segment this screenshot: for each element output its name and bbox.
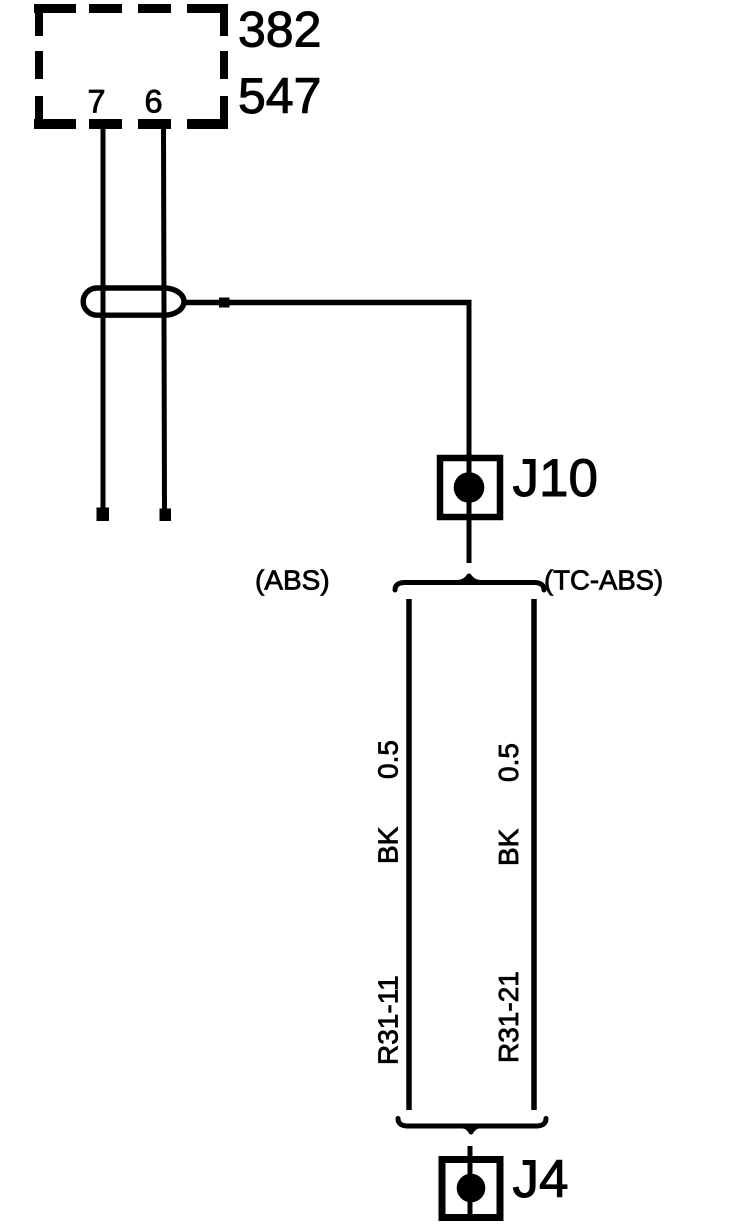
svg-text:BK: BK — [493, 828, 524, 866]
svg-text:J10: J10 — [513, 449, 598, 508]
svg-text:(ABS): (ABS) — [255, 565, 330, 596]
wire pin 7 — [101, 128, 106, 510]
wire horizontal from twisted pair — [183, 300, 472, 306]
splice J10 dot — [454, 472, 485, 503]
wire R31-11 — [406, 599, 412, 1110]
splice J10 box — [440, 458, 500, 517]
svg-text:0.5: 0.5 — [493, 743, 524, 782]
svg-text:7: 7 — [88, 84, 106, 120]
splice J4 dot — [457, 1174, 486, 1203]
svg-text:J4: J4 — [513, 1150, 569, 1209]
merge brace middle tick (lower) — [463, 1126, 479, 1132]
split brace (upper) — [395, 583, 544, 591]
svg-text:6: 6 — [145, 84, 163, 120]
connector block 382/547 (dashed box) — [34, 4, 228, 129]
svg-text:BK: BK — [373, 826, 404, 864]
svg-text:R31-11: R31-11 — [373, 975, 404, 1065]
wire pin 6 — [164, 128, 165, 510]
merge brace (lower) — [398, 1119, 546, 1127]
wire through J10 down to split — [467, 455, 472, 563]
svg-text:0.5: 0.5 — [373, 740, 404, 779]
wire vertical down to J10 — [467, 300, 472, 458]
wire endpoint pin 7 — [97, 508, 110, 522]
splice J4 box — [442, 1160, 500, 1218]
svg-text:R31-21: R31-21 — [493, 971, 524, 1063]
twisted-pair symbol (capsule) — [83, 288, 184, 315]
svg-text:547: 547 — [238, 68, 321, 124]
svg-text:382: 382 — [238, 2, 321, 58]
wire from merge to J4 — [468, 1146, 473, 1215]
wire endpoint pin 6 — [160, 509, 172, 522]
svg-text:(TC-ABS): (TC-ABS) — [544, 565, 663, 596]
split brace middle tick (upper) — [458, 576, 480, 583]
wire R31-21 — [531, 599, 537, 1110]
junction square on horizontal wire — [219, 298, 230, 308]
